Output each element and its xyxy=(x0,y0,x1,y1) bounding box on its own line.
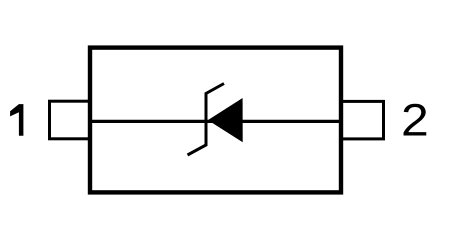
wire (pin 1 to cathode) xyxy=(90,120,214,123)
package outline xyxy=(90,48,341,193)
wire (anode to pin 2) xyxy=(236,120,341,123)
svg-text:2: 2 xyxy=(401,96,429,146)
pin 1 terminal pad xyxy=(50,101,91,139)
pin 2 terminal pad xyxy=(341,101,384,138)
zener diode cathode bar xyxy=(188,84,225,156)
pin number 1 xyxy=(10,104,23,136)
zener diode anode triangle xyxy=(208,98,243,142)
